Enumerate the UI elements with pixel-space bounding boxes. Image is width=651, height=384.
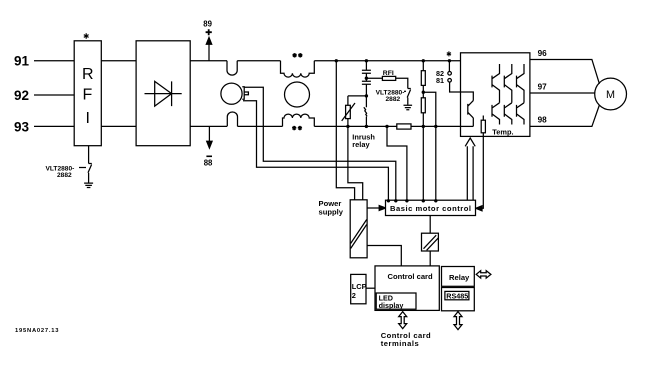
rectifier box — [136, 41, 190, 146]
wire PS to basic motor control — [367, 207, 381, 209]
svg-text:92: 92 — [14, 88, 29, 103]
svg-text:display: display — [379, 301, 404, 310]
terminal 82 circle — [448, 72, 452, 76]
junction bottom bus varistor — [346, 125, 349, 128]
bleeder resistor R2 — [421, 98, 425, 113]
bus minus inside inverter — [461, 125, 474, 127]
label LED display — [379, 293, 404, 310]
junction top bus caps — [365, 59, 368, 62]
wire RFI to rectifier (top) — [101, 60, 136, 62]
svg-text:I: I — [86, 110, 90, 127]
DC link capacitor C1 — [362, 61, 371, 78]
figure number 195NA027.13 — [15, 328, 59, 334]
label RS485 — [446, 292, 468, 301]
wire 92 to RFI — [34, 94, 74, 96]
shunt sense wire — [387, 126, 407, 200]
entry dot shunt — [405, 199, 408, 202]
label power supply — [319, 199, 344, 216]
inverter box — [461, 53, 530, 137]
label VLT2880-2882 (left) — [46, 166, 75, 180]
current sense wire A — [244, 87, 396, 200]
asterisk above RFI — [84, 33, 89, 39]
svg-text:R: R — [82, 66, 94, 83]
svg-text:96: 96 — [538, 49, 548, 58]
motor M — [595, 78, 627, 110]
RFI ground switch S1 — [88, 164, 92, 173]
temp sensor resistor — [482, 116, 484, 121]
svg-text:terminals: terminals — [381, 339, 419, 348]
label basic motor control — [390, 204, 471, 213]
relay IO arrow — [476, 271, 491, 278]
IGBT leg2 bottom Q4 — [504, 103, 512, 125]
label 81 — [436, 76, 444, 85]
RFI discharge resistor — [382, 76, 395, 80]
plus sign 89 — [206, 29, 212, 35]
terminal 89 arrowhead — [206, 38, 211, 45]
wire minus bus to power supply — [348, 126, 363, 199]
wire RFI to rectifier (bottom) — [101, 125, 136, 127]
optocoupler box — [422, 233, 439, 251]
gate drive arrowhead — [465, 138, 475, 146]
wire output 96 — [530, 60, 600, 84]
junction top bus PS feed — [335, 59, 338, 62]
wire rectifier output bottom bus — [190, 125, 227, 127]
terminal 88 arrowhead — [207, 141, 212, 148]
current sense wire B — [243, 101, 388, 201]
optocoupler hatch — [424, 235, 439, 250]
temp sense wire — [480, 133, 483, 209]
junction bottom bus tap cross — [434, 125, 437, 128]
minus sign 88 — [206, 155, 212, 157]
terminal 81 circle — [448, 79, 452, 83]
basic motor control box — [386, 200, 476, 215]
junction between caps — [365, 77, 368, 80]
IGBT leg1 bottom Q2 — [492, 103, 500, 125]
ground (mid) — [404, 105, 413, 110]
RFI filter box — [74, 41, 101, 146]
label 97 — [538, 83, 548, 92]
wire opto to control card — [429, 251, 431, 266]
junction top bus divider — [422, 59, 425, 62]
svg-text:81: 81 — [436, 76, 444, 85]
control card box — [375, 266, 439, 311]
current sensor loop top — [227, 61, 237, 75]
rectifier diode symbol — [145, 81, 182, 106]
divider tap wire to control — [423, 92, 436, 200]
label VLT2880-2882 (mid) — [376, 89, 405, 103]
node 91 label — [14, 54, 30, 69]
node 93 label — [14, 120, 30, 135]
label control card terminals — [381, 331, 431, 348]
power supply isolation hatch — [351, 220, 367, 249]
current sensor loop bottom — [227, 112, 237, 126]
shunt resistor on bottom bus — [397, 124, 411, 129]
wire 93 to RFI — [34, 125, 74, 127]
power supply box — [350, 200, 367, 258]
junction below caps — [365, 94, 368, 97]
label ** bottom — [292, 126, 296, 130]
svg-text:88: 88 — [204, 159, 213, 168]
wire 81 to brake chopper — [450, 82, 461, 92]
dash from label to switch — [79, 167, 86, 169]
wire output 98 — [530, 105, 600, 126]
svg-text:195NA027.13: 195NA027.13 — [15, 328, 59, 334]
dash mid label to switch — [404, 90, 406, 92]
wire bus minus sense — [422, 126, 424, 200]
svg-text:F: F — [83, 87, 93, 104]
bottom bus left of shunt — [314, 125, 397, 127]
label 88 — [204, 159, 213, 168]
asterisk above 82 — [447, 51, 451, 56]
label 89 — [203, 20, 212, 29]
current sensor tab — [242, 87, 248, 99]
wire top bus to terminal 82 — [448, 61, 450, 72]
node 92 label — [14, 88, 29, 103]
wire RFI resistor to switch — [396, 78, 408, 88]
arrowhead into BMC left — [379, 206, 385, 211]
RS485 outer box — [442, 288, 475, 311]
wire plus bus to power supply — [336, 61, 354, 200]
svg-text:97: 97 — [538, 83, 548, 92]
svg-text:98: 98 — [538, 115, 548, 124]
svg-text:91: 91 — [14, 54, 30, 69]
svg-text:relay: relay — [352, 140, 370, 149]
inrush relay contact — [364, 96, 367, 127]
junction divider tap — [422, 91, 425, 94]
brake IGBT Q7 — [468, 101, 474, 127]
entry dot sensor B — [387, 199, 390, 202]
terminal 88 stub — [208, 126, 210, 141]
svg-text:93: 93 — [14, 120, 30, 135]
choke core circle — [285, 82, 310, 107]
label 96 — [538, 49, 548, 58]
label RFI — [383, 70, 394, 77]
IGBT leg2 top Q3 — [504, 64, 512, 103]
entry dot sensor A — [394, 199, 397, 202]
bleeder resistor R1 — [422, 61, 424, 71]
label relay — [449, 273, 470, 282]
svg-text:89: 89 — [203, 20, 212, 29]
RFI filter label — [82, 66, 94, 127]
bottom bus right of shunt — [411, 125, 461, 127]
varistor — [346, 105, 351, 118]
ground (left) — [84, 183, 93, 187]
label LCP 2 — [352, 282, 367, 300]
svg-text:Basic motor control: Basic motor control — [390, 204, 471, 213]
junction bottom bus R2 — [422, 125, 425, 128]
DC choke bottom — [283, 114, 315, 126]
RFI ground switch S2 — [407, 89, 411, 98]
wire bottom bus to inductor — [238, 125, 283, 127]
svg-text:2882: 2882 — [57, 172, 72, 179]
junction bottom bus shunt sense — [385, 125, 388, 128]
relay box — [442, 267, 475, 287]
DC link capacitor C2 — [362, 78, 371, 96]
svg-text:Control card: Control card — [388, 272, 434, 281]
wire rectifier output top bus — [190, 60, 227, 62]
wire BMC to opto — [429, 216, 431, 234]
wire PS to control card — [367, 246, 401, 266]
svg-text:Temp.: Temp. — [492, 128, 513, 137]
wire 91 to RFI — [34, 60, 74, 62]
svg-text:RFI: RFI — [383, 70, 394, 77]
svg-text:RS485: RS485 — [446, 292, 468, 301]
wire output 97 — [530, 92, 595, 94]
terminal 89 stub — [208, 44, 210, 61]
wire cap bottom to varistor — [348, 96, 367, 105]
RS485 terminals arrow — [454, 312, 462, 330]
svg-text:2: 2 — [352, 291, 356, 300]
label Temp. — [492, 128, 513, 137]
wire cap tap to RFI resistor — [366, 77, 382, 79]
label 98 — [538, 115, 548, 124]
IGBT leg3 top Q5 — [517, 64, 525, 103]
label ** top — [293, 53, 297, 57]
wire LCP2 to control card — [366, 287, 375, 289]
svg-text:Relay: Relay — [449, 273, 470, 282]
RS485 inner box — [445, 291, 469, 299]
svg-text:LCP: LCP — [352, 282, 367, 291]
label control card — [388, 272, 434, 281]
junction bottom bus inrush — [365, 125, 368, 128]
label inrush relay — [352, 133, 375, 150]
DC choke top — [281, 61, 315, 77]
wire RFI to ground switch — [88, 146, 90, 164]
svg-text:supply: supply — [319, 207, 344, 216]
label 82 — [436, 69, 444, 78]
wire top bus to inductor — [237, 60, 280, 62]
LCP2 box — [351, 274, 366, 303]
gate drive lines — [467, 146, 473, 200]
entry dot divider tap — [434, 199, 437, 202]
top bus to inverter — [314, 60, 460, 62]
svg-text:2882: 2882 — [386, 96, 401, 103]
current sensor toroid — [221, 83, 242, 104]
junction top bus 82 — [448, 59, 451, 62]
IGBT leg3 bottom Q6 — [517, 103, 525, 125]
svg-text:M: M — [606, 89, 615, 101]
entry dot bus minus — [422, 199, 425, 202]
IGBT leg1 top Q1 — [492, 64, 500, 103]
temp wire arrowhead — [476, 206, 482, 211]
brake chopper input inside — [461, 92, 474, 101]
LED display box — [376, 293, 416, 309]
control terminals arrow — [399, 312, 407, 329]
